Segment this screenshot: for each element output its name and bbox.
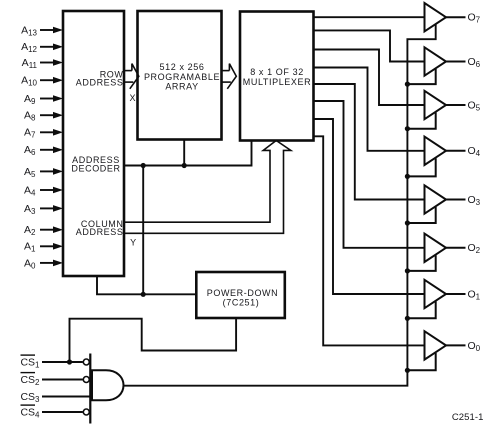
svg-text:C251-1: C251-1 <box>452 412 484 423</box>
wire mux to O6 buffer <box>314 30 425 61</box>
label ROW ADDRESS <box>76 69 124 87</box>
AND gate G1 <box>92 370 124 400</box>
input A9 <box>24 93 63 106</box>
junction dot <box>141 163 146 168</box>
wire CS1 to power-down block <box>70 318 237 362</box>
input A1 <box>24 241 63 254</box>
input A2 <box>24 224 63 237</box>
wire mux to O2 buffer <box>314 101 425 248</box>
label POWER-DOWN (7C251) <box>207 288 279 308</box>
inverter bubble CS4 <box>83 409 89 415</box>
input A0 <box>24 257 63 270</box>
svg-text:ARRAY: ARRAY <box>165 81 198 91</box>
output O3 label <box>468 194 481 207</box>
wire mux to O5 buffer <box>314 50 425 106</box>
label ADDRESS DECODER <box>71 155 120 173</box>
junction dot O4 enable <box>405 174 410 179</box>
input CS1 <box>20 355 82 369</box>
junction dot O1 enable <box>405 316 410 321</box>
wire mux to O3 buffer <box>314 84 425 200</box>
input A3 <box>24 203 63 216</box>
inverter bubble CS2 <box>83 377 89 383</box>
svg-text:X: X <box>129 93 136 103</box>
wire mux to O1 buffer <box>314 119 425 294</box>
output O6 label <box>468 56 481 69</box>
label 512 x 256 PROGRAMABLE ARRAY <box>144 62 220 91</box>
AND gate input bar <box>89 354 91 424</box>
tri-state buffer O0 <box>407 331 465 370</box>
input CS3 <box>20 391 90 404</box>
svg-text:(7C251): (7C251) <box>223 298 260 308</box>
input A11 <box>22 57 63 70</box>
label 8 x 1 OF 32 MULTIPLEXER <box>243 67 311 87</box>
input A13 <box>21 24 63 37</box>
tri-state buffer O3 <box>407 185 465 223</box>
junction dot O6 enable <box>405 82 410 87</box>
power-down block U4 <box>196 272 284 318</box>
tri-state buffer O6 <box>407 47 465 84</box>
bus arrow array to multiplexer <box>222 64 237 89</box>
svg-text:POWER-DOWN: POWER-DOWN <box>207 288 279 298</box>
wire array bottom drop <box>183 140 185 166</box>
input A8 <box>24 110 63 123</box>
multiplexer block U3 <box>240 12 314 141</box>
input A4 <box>24 184 63 197</box>
output O0 label <box>468 340 481 353</box>
junction dot on CS1 line <box>67 359 72 364</box>
tri-state buffer O5 <box>407 91 465 129</box>
wire decoder bottom to power-down input <box>97 276 196 294</box>
junction dot O5 enable <box>405 126 410 131</box>
input A6 <box>24 144 63 157</box>
input A12 <box>21 41 63 54</box>
input A5 <box>24 166 63 179</box>
svg-text:DECODER: DECODER <box>71 164 120 174</box>
figure number C251-1 <box>452 412 484 423</box>
svg-text:MULTIPLEXER: MULTIPLEXER <box>243 77 311 87</box>
junction dot O3 enable <box>405 220 410 225</box>
junction dot <box>141 292 146 297</box>
svg-text:ADDRESS: ADDRESS <box>76 78 124 88</box>
svg-text:Y: Y <box>130 238 137 248</box>
junction dot O0 enable <box>405 368 410 373</box>
input A10 <box>21 75 63 88</box>
output O2 label <box>468 242 481 255</box>
node Y label <box>130 238 137 248</box>
junction dot <box>182 163 187 168</box>
wire decoder X line to multiplexer bottom <box>124 141 252 166</box>
tri-state buffer O4 <box>407 137 465 177</box>
label COLUMN ADDRESS <box>76 219 124 237</box>
tri-state buffer O1 <box>407 280 465 319</box>
input A7 <box>24 127 63 140</box>
node X label <box>129 93 136 103</box>
output O4 label <box>468 145 481 158</box>
output O1 label <box>468 288 481 301</box>
bus arrow X row address decoder to array <box>124 64 139 89</box>
programmable array block U2 <box>138 11 222 140</box>
wire mux to O0 buffer <box>314 136 425 345</box>
input CS4 <box>20 405 82 419</box>
output O5 label <box>468 99 481 112</box>
bus arrow Y column address to multiplexer <box>124 141 291 234</box>
svg-text:8 x 1 OF 32: 8 x 1 OF 32 <box>250 67 304 77</box>
svg-text:ADDRESS: ADDRESS <box>76 227 124 237</box>
tri-state buffer O2 <box>407 234 465 271</box>
svg-text:PROGRAMABLE: PROGRAMABLE <box>144 72 220 82</box>
wire mux to O4 buffer <box>314 68 425 151</box>
junction dot O2 enable <box>405 268 410 273</box>
address decoder block <box>63 11 124 276</box>
output O7 label <box>468 12 481 25</box>
wire branch down to power-down input line <box>142 166 144 295</box>
wire mux to O7 buffer <box>314 16 425 18</box>
tri-state buffer O7 <box>425 3 466 31</box>
inverter bubble CS1 <box>83 359 89 365</box>
wire AND output to enable bus <box>124 25 436 386</box>
svg-text:512 x 256: 512 x 256 <box>160 62 205 72</box>
input CS2 <box>20 373 82 387</box>
